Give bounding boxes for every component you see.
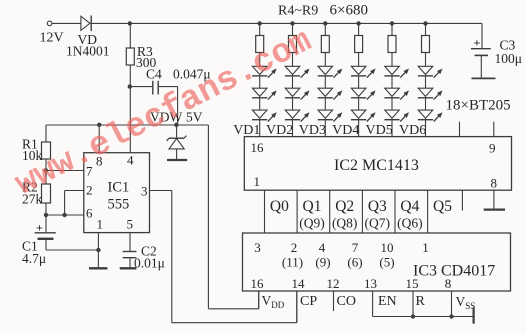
svg-text:IC1: IC1 — [108, 180, 130, 196]
svg-text:(5): (5) — [379, 255, 394, 270]
svg-text:Q4: Q4 — [400, 198, 419, 215]
svg-text:(Q6): (Q6) — [397, 216, 423, 231]
svg-text:IC2 MC1413: IC2 MC1413 — [334, 157, 419, 174]
svg-text:16: 16 — [251, 140, 265, 155]
svg-text:(6): (6) — [347, 255, 362, 270]
svg-text:9: 9 — [489, 141, 496, 156]
svg-text:8: 8 — [445, 276, 452, 291]
svg-text:2: 2 — [291, 240, 298, 255]
svg-text:VD2: VD2 — [266, 123, 293, 138]
svg-text:16: 16 — [251, 276, 265, 291]
svg-text:1: 1 — [97, 217, 104, 232]
svg-text:3: 3 — [254, 240, 261, 255]
svg-text:555: 555 — [108, 197, 130, 213]
svg-text:EN: EN — [378, 294, 397, 309]
svg-text:(11): (11) — [282, 255, 303, 270]
svg-text:14: 14 — [292, 276, 306, 291]
svg-text:0.01μ: 0.01μ — [134, 256, 165, 271]
svg-text:18×BT205: 18×BT205 — [446, 98, 511, 114]
svg-text:7: 7 — [352, 240, 359, 255]
svg-text:+: + — [474, 36, 481, 50]
svg-text:R: R — [416, 294, 426, 309]
svg-text:4: 4 — [319, 240, 326, 255]
svg-text:CP: CP — [300, 294, 317, 309]
svg-text:Q5: Q5 — [433, 198, 452, 215]
svg-text:VD4: VD4 — [332, 123, 359, 138]
svg-text:4: 4 — [127, 153, 134, 168]
svg-text:10: 10 — [381, 240, 394, 255]
svg-text:Q0: Q0 — [270, 198, 289, 215]
svg-text:C4: C4 — [146, 67, 162, 82]
svg-text:IC3 CD4017: IC3 CD4017 — [413, 263, 495, 280]
svg-text:4.7μ: 4.7μ — [22, 251, 46, 266]
svg-text:15: 15 — [406, 276, 419, 291]
svg-text:Q3: Q3 — [368, 198, 387, 215]
svg-text:5: 5 — [127, 217, 134, 232]
svg-text:R4~R9: R4~R9 — [278, 4, 318, 19]
svg-text:VD1: VD1 — [233, 123, 260, 138]
svg-text:1: 1 — [422, 240, 429, 255]
svg-text:8: 8 — [491, 176, 498, 191]
svg-text:VD6: VD6 — [399, 123, 426, 138]
svg-text:2: 2 — [86, 183, 93, 198]
svg-text:Q2: Q2 — [335, 198, 354, 215]
svg-text:(Q7): (Q7) — [365, 216, 391, 231]
svg-text:1N4001: 1N4001 — [66, 44, 110, 59]
svg-text:(Q8): (Q8) — [332, 216, 358, 231]
svg-text:(9): (9) — [315, 255, 330, 270]
svg-text:6: 6 — [86, 206, 93, 221]
svg-text:(Q9): (Q9) — [299, 216, 325, 231]
svg-text:6×680: 6×680 — [330, 3, 368, 19]
svg-text:Q1: Q1 — [303, 198, 322, 215]
svg-text:VD3: VD3 — [299, 123, 326, 138]
svg-text:CO: CO — [337, 294, 356, 309]
svg-text:VD5: VD5 — [366, 123, 393, 138]
svg-text:13: 13 — [364, 276, 377, 291]
svg-text:100μ: 100μ — [495, 51, 523, 66]
svg-text:12: 12 — [327, 276, 340, 291]
svg-text:1: 1 — [254, 174, 261, 189]
svg-text:12V: 12V — [40, 31, 64, 46]
svg-text:3: 3 — [141, 184, 148, 199]
